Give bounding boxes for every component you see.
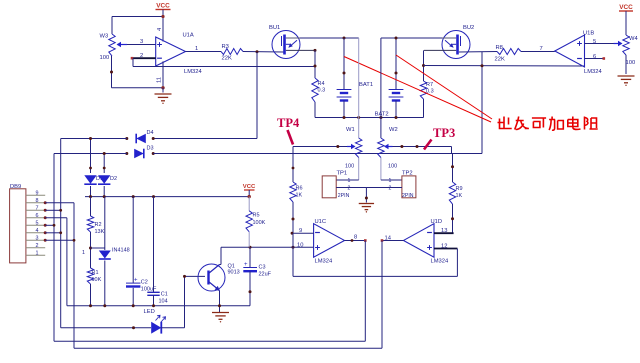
transistor BU1 (MOSFET): [269, 25, 315, 59]
pin 8 output wire: [345, 235, 366, 242]
node R5/C3 tap: [249, 246, 252, 249]
svg-text:22K: 22K: [222, 56, 232, 62]
pin 11 (V-) wire: [157, 61, 164, 87]
pin 2 wire (inverting input): [133, 53, 156, 59]
wire R8 to U1B pin7: [521, 46, 555, 52]
wire W2 wiper riser: [481, 52, 483, 154]
node drain/BAT1 junction: [343, 37, 346, 40]
wire LED anode: [61, 326, 151, 329]
pin 6 wire: [585, 54, 604, 60]
svg-text:22K: 22K: [495, 57, 505, 63]
svg-text:6: 6: [593, 54, 596, 60]
svg-text:W1: W1: [346, 127, 355, 133]
annotation red line A: [344, 57, 491, 123]
wire DB9 pin7: [45, 209, 62, 212]
svg-text:R7: R7: [426, 82, 433, 88]
node drain/BAT2 junction: [395, 37, 398, 40]
wire DB9 pin8 to bus2: [45, 203, 74, 348]
power VCC (mid): [243, 184, 256, 197]
transistor BU2 (MOSFET): [424, 25, 474, 59]
resistor R8 22K: [495, 45, 522, 63]
battery BAT1: [337, 82, 373, 118]
svg-text:1: 1: [389, 178, 392, 184]
svg-text:LED: LED: [144, 309, 155, 315]
connector TP2: [389, 170, 416, 199]
LED: [144, 309, 166, 334]
svg-text:C1: C1: [161, 292, 168, 298]
svg-text:2: 2: [389, 186, 392, 192]
wire R2 to R1: [89, 232, 92, 268]
node riser/feedback junction: [481, 64, 484, 67]
wire W1 wiper net (TP4): [293, 145, 347, 148]
svg-text:11: 11: [157, 77, 163, 83]
wire BU2 drain net: [381, 38, 442, 52]
power VCC (W4): [619, 4, 633, 11]
node R7 feedback junction: [422, 64, 425, 67]
wire VCC rail to W3 top: [112, 10, 163, 42]
wire W2 bottom to TP2: [381, 158, 402, 181]
svg-text:13: 13: [441, 228, 447, 234]
wire DB9 pin4: [45, 231, 62, 234]
wire R6 to U1C pin9: [292, 202, 295, 233]
annotation text (Chinese): [498, 117, 598, 131]
svg-text:0.3: 0.3: [318, 88, 326, 94]
svg-text:1K: 1K: [296, 193, 303, 199]
svg-text:VCC: VCC: [619, 4, 633, 11]
node VCC junction: [161, 15, 164, 18]
power VCC (U1A): [156, 3, 171, 10]
op-amp U1C: [314, 219, 345, 265]
node loop tap: [292, 246, 295, 249]
wire DB9 pin5: [45, 224, 55, 227]
svg-text:LM324: LM324: [431, 259, 450, 265]
wire LED cathode to Q1 base: [161, 275, 205, 328]
potentiometer W3: [100, 34, 128, 62]
svg-text:R8: R8: [496, 45, 503, 51]
wire Q1 emitter to ground rail: [219, 291, 221, 306]
wire R3 to BU1 gate: [243, 51, 284, 54]
svg-text:BAT1: BAT1: [359, 82, 373, 88]
wire W2 wiper net (TP3): [393, 145, 452, 154]
resistor R1 10K: [87, 268, 101, 306]
op-amp U1B: [555, 31, 603, 76]
svg-text:U1D: U1D: [431, 219, 443, 225]
DB9 pin 7: [26, 205, 47, 212]
svg-text:R9: R9: [456, 186, 463, 192]
pin 5 wire: [585, 39, 614, 45]
pin 4 (V+): [157, 27, 163, 31]
svg-text:R2: R2: [95, 222, 102, 228]
svg-text:C2: C2: [141, 280, 148, 286]
svg-text:1: 1: [348, 178, 351, 184]
svg-text:BU2: BU2: [463, 25, 474, 31]
wire feedback net U1A (pin2 to BU1 source): [133, 66, 315, 68]
svg-text:5: 5: [593, 39, 596, 45]
svg-text:100: 100: [345, 164, 354, 170]
wire ground rail: [67, 304, 250, 307]
wire TP4 riser to R6: [292, 147, 295, 183]
svg-text:2: 2: [36, 243, 39, 249]
wire U1C output bus: [54, 241, 365, 342]
wire right feedback net: [424, 65, 585, 68]
svg-text:6: 6: [36, 213, 39, 219]
annotation TP4: [277, 116, 300, 145]
wire pin2 to feedback line: [132, 58, 134, 66]
svg-text:TP2: TP2: [402, 170, 413, 176]
resistor R7 0.3: [420, 50, 433, 117]
transistor Q1 9013: [198, 264, 240, 292]
svg-text:IN4148: IN4148: [112, 248, 130, 254]
node BU1 source: [314, 49, 317, 52]
node U1D output: [381, 239, 384, 242]
DB9 pin 5: [26, 220, 47, 227]
wire R9 to U1D pin13: [451, 204, 454, 233]
capacitor C3 22uF: [243, 247, 271, 306]
resistor R4 0.3: [312, 78, 325, 118]
wire Q1 collector: [220, 247, 314, 264]
wire TP3 riser to R9: [451, 154, 454, 183]
node R3/gate junction: [256, 50, 259, 53]
svg-text:D3: D3: [147, 146, 154, 152]
op-amp U1D: [404, 219, 450, 265]
svg-text:100: 100: [388, 164, 397, 170]
DB9 pin 3: [26, 235, 47, 242]
svg-text:100: 100: [100, 55, 110, 61]
wire D1 top: [89, 137, 92, 173]
svg-text:9: 9: [299, 228, 302, 234]
svg-text:C3: C3: [259, 265, 266, 271]
svg-text:1K: 1K: [456, 193, 463, 199]
pin 12 wire: [434, 244, 457, 250]
svg-text:LM324: LM324: [184, 69, 203, 75]
svg-text:2: 2: [348, 186, 351, 192]
svg-text:3: 3: [140, 39, 143, 45]
svg-text:9: 9: [36, 190, 39, 196]
svg-text:10K: 10K: [92, 277, 102, 283]
svg-text:100K: 100K: [253, 220, 266, 226]
wire D3 net (left): [54, 154, 127, 342]
ground (W4): [618, 75, 635, 77]
wire BU2 gate to R8: [459, 51, 497, 54]
svg-text:1: 1: [195, 46, 198, 52]
svg-text:TP3: TP3: [433, 126, 455, 140]
svg-text:12: 12: [441, 244, 447, 250]
svg-text:DB9: DB9: [10, 184, 21, 190]
pin 9 wire: [291, 228, 314, 235]
diode IN4148: [99, 248, 130, 306]
battery BAT2: [375, 90, 404, 118]
svg-text:VCC: VCC: [243, 184, 256, 190]
svg-text:W2: W2: [389, 127, 398, 133]
resistor R2 13K: [87, 197, 104, 235]
wire W1 bottom to TP1: [336, 158, 359, 181]
pin 13 wire: [434, 228, 454, 234]
wire BU1 drain net: [300, 37, 359, 39]
svg-text:W4: W4: [629, 36, 638, 42]
svg-text:4: 4: [36, 228, 39, 234]
wire U1D output bus: [74, 241, 382, 349]
svg-text:1: 1: [36, 250, 39, 256]
svg-text:14: 14: [385, 236, 392, 242]
wire W4 bottom to ground: [625, 55, 627, 74]
wire D2 top: [103, 152, 106, 173]
pin 1 output wire: [186, 46, 222, 52]
wire W3 bottom to ground rail: [110, 56, 163, 88]
diode D1: [84, 175, 103, 184]
svg-text:U1A: U1A: [183, 33, 194, 39]
svg-text:22uF: 22uF: [259, 272, 272, 278]
wire BAT1 top: [343, 38, 346, 90]
svg-text:TP1: TP1: [337, 170, 348, 176]
svg-text:3: 3: [36, 235, 39, 241]
svg-text:8: 8: [36, 198, 39, 204]
DB9 pin 4: [26, 228, 47, 235]
node pin6 end: [603, 57, 606, 60]
svg-text:5: 5: [36, 220, 39, 226]
wire DB9 pin6 to ground rail: [45, 218, 67, 306]
DB9 pin 2: [26, 243, 45, 249]
wire TP pin2 to ground: [336, 188, 402, 203]
annotation TP3: [424, 126, 455, 150]
capacitor C2 100uF: [126, 197, 157, 306]
resistor R6 1K: [290, 182, 303, 202]
wire BAT2 top: [395, 38, 398, 90]
node VCC rail end: [248, 195, 251, 198]
ground (U1A): [155, 88, 172, 104]
W2 wiper arrow: [385, 146, 393, 148]
diode D4: [125, 130, 154, 143]
ground (TP center): [359, 203, 374, 205]
svg-text:R3: R3: [222, 44, 229, 50]
wire D4 net (gate node to DB9): [153, 52, 257, 139]
wire pin12 loop: [293, 233, 457, 276]
svg-text:7: 7: [540, 46, 543, 52]
node source/feedback junction: [314, 65, 317, 68]
op-amp U1A: [156, 33, 203, 76]
svg-text:LM324: LM324: [315, 259, 334, 265]
svg-text:7: 7: [36, 205, 39, 211]
wire D4 left to DB9 riser: [61, 139, 127, 328]
svg-text:LM324: LM324: [584, 69, 603, 75]
svg-text:D4: D4: [147, 130, 154, 136]
DB9 pin 1: [26, 250, 45, 256]
pin 14 output wire: [382, 236, 404, 242]
wire W3 wiper to U1A pin3: [127, 44, 156, 46]
svg-text:104: 104: [159, 299, 168, 305]
DB9 pin 8: [26, 198, 47, 205]
annotation red line B: [396, 55, 492, 119]
svg-text:BU1: BU1: [269, 25, 280, 31]
potentiometer W4: [614, 11, 639, 66]
connector TP1: [322, 170, 350, 199]
node U1C output: [364, 239, 367, 242]
svg-text:2: 2: [140, 53, 143, 59]
node ground junction U1A: [161, 86, 164, 89]
resistor R9 1K: [449, 182, 462, 204]
svg-text:9013: 9013: [228, 270, 240, 276]
ground (Q1): [212, 306, 229, 323]
W1 wiper arrow: [347, 146, 355, 148]
wire DB9 pin3: [45, 239, 75, 242]
svg-text:8: 8: [354, 235, 357, 241]
svg-text:100: 100: [626, 60, 636, 66]
svg-text:VCC: VCC: [156, 3, 170, 10]
svg-text:R1: R1: [92, 270, 99, 276]
diode D2: [98, 175, 117, 184]
svg-text:D2: D2: [110, 176, 117, 182]
resistor R5 100K: [246, 197, 266, 248]
node pin2 end: [131, 57, 134, 60]
wire D3 net (right, TP4 to riser): [153, 153, 482, 155]
svg-text:4: 4: [157, 27, 163, 31]
svg-text:TP4: TP4: [277, 116, 300, 130]
svg-text:13K: 13K: [95, 229, 105, 235]
DB9 pin 6: [26, 213, 47, 220]
svg-text:10: 10: [297, 243, 303, 249]
svg-text:2PIN: 2PIN: [402, 193, 414, 199]
svg-text:U1C: U1C: [315, 219, 327, 225]
svg-text:U1B: U1B: [583, 31, 594, 37]
svg-text:W3: W3: [100, 34, 109, 40]
svg-text:R6: R6: [296, 186, 303, 192]
wire BU1 source to R4: [314, 50, 316, 78]
resistor R3 22K: [221, 44, 243, 61]
potentiometer W2: [378, 52, 398, 170]
diode D3: [125, 146, 154, 159]
svg-text:2PIN: 2PIN: [338, 193, 350, 199]
connector DB9: [10, 184, 26, 263]
svg-text:R4: R4: [318, 81, 325, 87]
svg-text:1: 1: [82, 250, 85, 256]
svg-text:R5: R5: [253, 213, 260, 219]
wire to diode IN4148: [82, 197, 105, 256]
DB9 pin 9: [26, 190, 45, 196]
capacitor C1 104: [147, 197, 168, 306]
potentiometer W1: [345, 38, 362, 170]
wire VCC mid rail: [85, 186, 249, 198]
wire battery bottom rail: [315, 116, 424, 119]
